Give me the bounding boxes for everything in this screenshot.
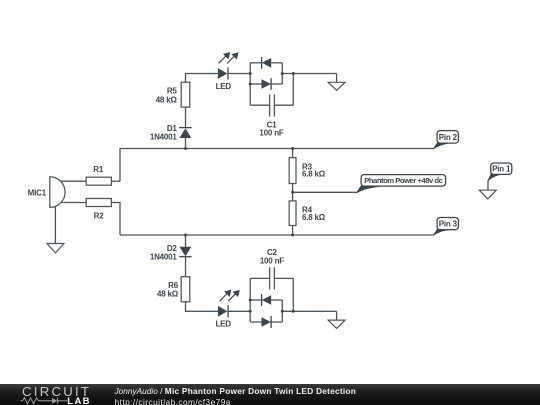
wire R1 right: [111, 180, 120, 182]
node dot bottom bus / R4: [291, 234, 294, 237]
node dot bottom bus / D2: [184, 234, 187, 237]
wire box1 right to ground: [282, 73, 336, 75]
resistor R6: [181, 277, 190, 302]
resistor R2: [86, 199, 111, 207]
wire box1 top diode segs: [250, 62, 261, 64]
ground (mic): [47, 244, 64, 253]
svg-text:R2: R2: [94, 212, 105, 221]
svg-text:Pin 1: Pin 1: [492, 164, 511, 173]
diode box2 top diode (points left): [262, 294, 272, 306]
diode box1 top diode (points left): [262, 57, 272, 69]
resistor R5: [181, 82, 190, 107]
footer logo squiggle: [19, 397, 69, 405]
svg-text:Pin 2: Pin 2: [439, 133, 458, 142]
flag Pin 3: [433, 218, 458, 236]
wire box2 top diode segs: [250, 299, 261, 301]
node dot top bus / R3: [291, 147, 294, 150]
svg-text:LED: LED: [216, 82, 232, 91]
footer title line: [115, 386, 357, 396]
wire C2 loop: [250, 277, 269, 279]
svg-text:1N4001: 1N4001: [150, 132, 178, 141]
node dot phantom: [291, 191, 294, 194]
node dot box2 right main: [281, 310, 284, 313]
svg-text:48 kΩ: 48 kΩ: [156, 95, 178, 104]
wire LED2 to box2: [228, 310, 250, 312]
wire top bus node D1: [120, 149, 434, 182]
capacitor C2: [270, 267, 275, 289]
flag Phantom Power +48v dc: [357, 175, 446, 193]
flag Pin 1: [488, 163, 512, 181]
LED2 arrows: [220, 291, 239, 302]
footer logo LAB: [67, 396, 91, 405]
wire box1 left vertical: [249, 63, 251, 105]
svg-text:6.8 kΩ: 6.8 kΩ: [302, 213, 326, 222]
wire box1 right vertical: [281, 63, 283, 84]
node dot box1 right main: [281, 72, 284, 75]
wire phantom node: [293, 191, 357, 193]
svg-text:100 nF: 100 nF: [260, 257, 284, 266]
resistor R1: [86, 177, 111, 185]
wire R2 left to mic: [57, 202, 86, 204]
ground (top right): [328, 82, 345, 90]
footer url line: [115, 397, 231, 405]
node dot box2 left upper: [249, 299, 252, 302]
svg-text:6.8 kΩ: 6.8 kΩ: [302, 170, 326, 179]
LED1 arrows: [219, 53, 238, 64]
wire box2 left vertical: [249, 278, 251, 322]
svg-text:1N4001: 1N4001: [150, 252, 178, 261]
wire D1 to top bus: [185, 138, 187, 149]
svg-text:48 kΩ: 48 kΩ: [157, 290, 179, 299]
diode D1: [179, 128, 192, 138]
wire box2 right to ground: [282, 310, 336, 312]
LED1: [218, 67, 228, 79]
wire LED1 to box: [228, 73, 250, 75]
node dot box2 left main: [249, 310, 252, 313]
ground (bottom right): [328, 320, 345, 328]
wire mic ground stem: [54, 204, 56, 244]
node dot top bus / D1: [184, 147, 187, 150]
wire C1 loop: [250, 104, 269, 106]
diode D2: [179, 247, 192, 257]
wire R5 bottom to D1 bar: [185, 107, 187, 128]
resistor R4: [289, 201, 296, 226]
wire box2 bottom diode segs: [250, 321, 261, 323]
wire R2 right: [111, 203, 120, 236]
capacitor C1: [270, 95, 275, 117]
svg-text:100 nF: 100 nF: [259, 128, 283, 137]
node dot box1 left lower: [249, 83, 252, 86]
wire R1 left to mic: [57, 180, 86, 182]
microphone MIC1: [50, 177, 65, 208]
node dot box1 left main: [249, 72, 252, 75]
ground (pin1): [479, 190, 496, 199]
wire pin1 stem: [487, 181, 489, 191]
wire box1 bottom diode segs: [250, 83, 261, 85]
svg-text:Pin 3: Pin 3: [439, 220, 458, 229]
wire ground1 stem: [336, 74, 338, 83]
diode box2 bottom diode (points right): [262, 316, 272, 328]
svg-text:MIC1: MIC1: [28, 188, 47, 197]
node dot cap1 right: [292, 72, 295, 75]
wire D2 from bus: [185, 235, 187, 247]
wire R3 stems: [292, 149, 294, 158]
footer bar: [0, 384, 540, 405]
svg-text:R5: R5: [167, 87, 178, 96]
flag Pin 2: [433, 131, 458, 149]
diode box1 bottom diode (points right): [262, 78, 272, 90]
wire R4 stems: [292, 192, 294, 201]
wire D2 to R6: [185, 257, 187, 277]
wire box2 right vertical: [281, 300, 283, 322]
svg-text:R1: R1: [93, 165, 104, 174]
wire R5 top corner to LED: [186, 74, 218, 83]
svg-text:Phantom Power +48v dc: Phantom Power +48v dc: [364, 176, 443, 185]
wire bottom bus: [120, 234, 434, 236]
wire R6 bottom corner to LED2: [186, 302, 219, 312]
resistor R3: [289, 158, 296, 184]
svg-text:LED: LED: [215, 320, 231, 329]
LED2: [218, 305, 228, 317]
footer logo CIRCUIT: [22, 384, 91, 399]
node dot cap2 right: [292, 310, 295, 313]
wire ground2 stem: [336, 311, 338, 320]
